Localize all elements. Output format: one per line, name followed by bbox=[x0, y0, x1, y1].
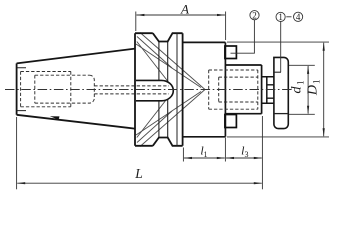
spigot (pilot) outline bbox=[225, 65, 261, 114]
body outline bbox=[183, 42, 226, 136]
dim A line bbox=[137, 14, 225, 16]
dim l1 arrows bbox=[184, 157, 193, 159]
flange hatch S2 lower bbox=[137, 111, 172, 143]
dim l1 extension line bbox=[182, 148, 184, 162]
svg-text:1: 1 bbox=[312, 80, 322, 85]
leader for item 2 bbox=[231, 20, 255, 53]
dim d1 line bbox=[307, 66, 309, 114]
flange outline bbox=[135, 33, 183, 146]
taper end chamfer lines bbox=[17, 68, 26, 111]
label D1 (rotated) bbox=[306, 80, 322, 97]
svg-text:2: 2 bbox=[252, 10, 257, 20]
cone line T1 (internal taper, upper outer) bbox=[140, 33, 205, 90]
dim D1 extension lines bbox=[227, 42, 329, 137]
flange rear junction line bbox=[176, 33, 178, 146]
dim A extension lines bbox=[135, 12, 137, 32]
svg-text:A: A bbox=[180, 2, 189, 17]
dim A arrows bbox=[136, 14, 145, 16]
drive slot bulb on flange bbox=[136, 80, 173, 100]
callout circle 4 bbox=[294, 12, 303, 21]
cone line B2 (internal taper, lower inner) bbox=[136, 92, 201, 136]
dim l3 arrows bbox=[226, 157, 235, 159]
screw neck bbox=[267, 85, 274, 98]
dim D1 arrows bbox=[323, 42, 325, 51]
flange hatch S1 lower bbox=[137, 98, 168, 138]
dim l1 line bbox=[184, 157, 225, 159]
dim L line bbox=[17, 182, 261, 184]
svg-text:1: 1 bbox=[296, 81, 306, 86]
V-groove left edge projection line bbox=[158, 42, 160, 138]
cone line T2 (internal taper, upper inner) bbox=[136, 44, 201, 88]
disc inner step line upper bbox=[275, 71, 282, 73]
centerline (axis) bbox=[5, 89, 293, 91]
svg-text:1: 1 bbox=[204, 150, 208, 159]
arrowheads bbox=[17, 14, 325, 184]
svg-text:4: 4 bbox=[296, 12, 301, 22]
V-groove right edge projection line bbox=[167, 42, 169, 138]
dim L extension lines bbox=[16, 117, 18, 189]
dim d1 arrows bbox=[307, 65, 309, 74]
dim l3 line bbox=[226, 157, 262, 159]
svg-text:1: 1 bbox=[278, 12, 283, 22]
washer bbox=[262, 77, 274, 103]
label d1 (rotated) bbox=[290, 81, 306, 94]
dim d1 extension lines bbox=[289, 65, 315, 114]
dim L arrows bbox=[17, 182, 26, 184]
drive key top (item 2) bbox=[225, 46, 237, 59]
callout circle 1 bbox=[276, 12, 285, 21]
svg-text:L: L bbox=[134, 166, 143, 181]
svg-text:3: 3 bbox=[245, 150, 249, 159]
svg-text:d: d bbox=[290, 86, 305, 94]
taper shank outline bbox=[17, 49, 135, 129]
callout circle 2 bbox=[250, 11, 259, 20]
dim D1 line bbox=[323, 43, 325, 136]
svg-text:D: D bbox=[306, 85, 321, 96]
leader for items 1-4 bbox=[280, 22, 282, 73]
arrow mark on taper lower edge bbox=[50, 116, 60, 119]
retaining cap disc (items 1-4) bbox=[274, 57, 288, 128]
flange hatch S1 upper bbox=[137, 42, 168, 82]
drive key bottom bbox=[225, 115, 237, 128]
hidden thread bore in taper (dashed) bbox=[21, 72, 169, 107]
flange hatch S2 upper bbox=[137, 37, 172, 69]
cone line B1 (internal taper, lower outer) bbox=[140, 90, 205, 147]
disc inner step line lower bbox=[274, 113, 288, 115]
dash between circles 1 and 4 bbox=[286, 16, 291, 18]
hidden bore in body (dashed) bbox=[209, 70, 258, 109]
